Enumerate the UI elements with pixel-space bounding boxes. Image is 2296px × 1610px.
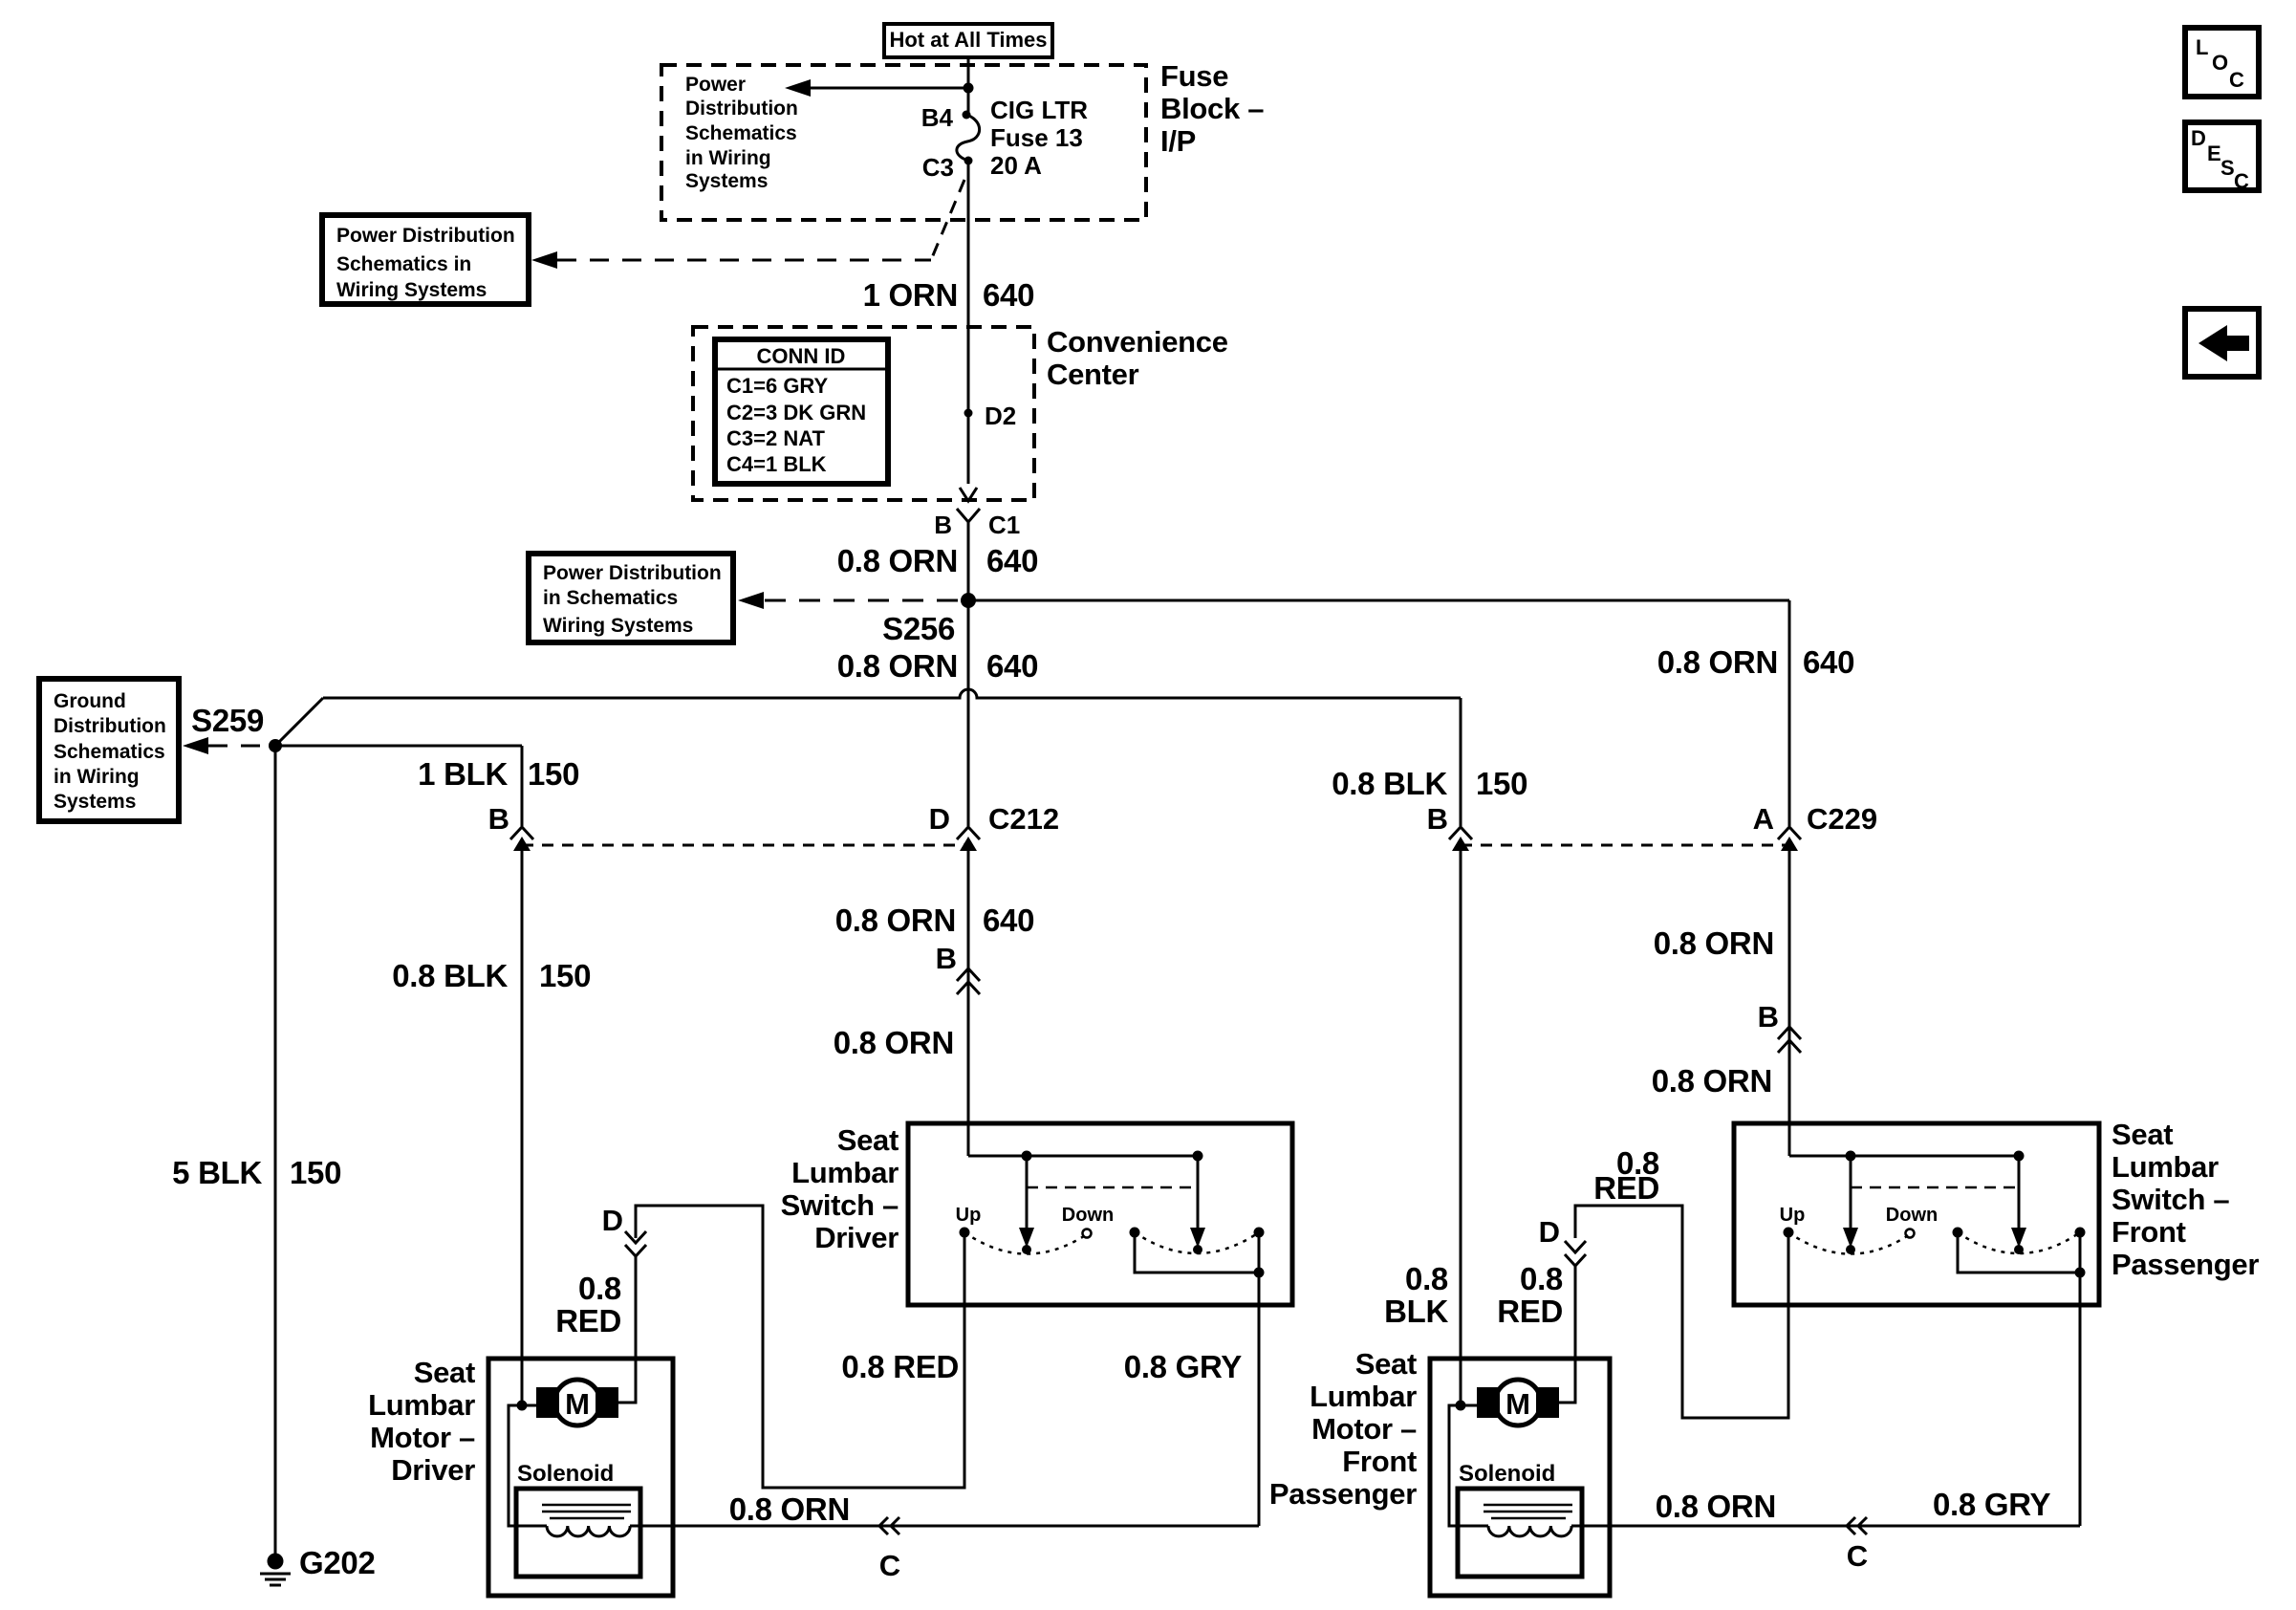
svg-text:C3: C3: [922, 153, 954, 182]
svg-text:A: A: [1753, 802, 1774, 836]
svg-text:150: 150: [290, 1155, 341, 1190]
svg-text:0.8 ORN: 0.8 ORN: [1652, 1063, 1772, 1099]
svg-text:20 A: 20 A: [990, 151, 1042, 180]
svg-text:Driver: Driver: [391, 1453, 475, 1487]
terminal dot: Up output: [960, 1228, 970, 1238]
switch wiper arrow (down contact): [1190, 1156, 1205, 1248]
junction: [1193, 1151, 1203, 1162]
svg-text:Power: Power: [685, 74, 746, 96]
fixed contact dots (right group): [1130, 1228, 1140, 1238]
svg-text:B: B: [1758, 1000, 1779, 1033]
dashed harness line B to C229: [1461, 844, 1789, 847]
splice S256: [882, 593, 976, 646]
svg-text:640: 640: [983, 903, 1034, 938]
svg-text:Seat: Seat: [837, 1123, 899, 1157]
pin C3: [922, 153, 973, 182]
svg-text:Up: Up: [956, 1205, 982, 1226]
solenoid (passenger): coil: [1488, 1526, 1571, 1536]
splice S259: [191, 703, 282, 752]
svg-text:1 ORN: 1 ORN: [863, 277, 958, 313]
wire: jog down to solenoid (passenger): [1449, 1405, 1488, 1526]
fuse: CIG LTR Fuse 13 20 A: [957, 96, 1088, 180]
connector C (driver, inline): [879, 1517, 900, 1582]
pin B / C1 labels: [934, 511, 1020, 539]
connector C1: male arrow: [960, 488, 977, 501]
svg-text:Power Distribution: Power Distribution: [336, 225, 515, 247]
svg-text:Seat: Seat: [414, 1356, 475, 1389]
svg-text:Motor –: Motor –: [1311, 1412, 1417, 1446]
note: Power Distribution Schematics in Wiring Systems (inside fuse block): [685, 74, 798, 192]
svg-text:0.8 ORN: 0.8 ORN: [834, 1025, 954, 1060]
wire label: 0.8 ORN / 640 below S256: [837, 648, 1038, 684]
svg-text:0.8 ORN: 0.8 ORN: [1654, 925, 1774, 961]
svg-text:0.8 ORN: 0.8 ORN: [835, 903, 956, 938]
wire label: 0.8 BLK / 150 (driver motor feed): [392, 958, 591, 993]
svg-text:Systems: Systems: [685, 170, 768, 192]
inline connector B (passenger feed): [1758, 1000, 1801, 1053]
svg-text:640: 640: [986, 648, 1038, 684]
wire: 0.8 GRY from driver switch down: [1258, 1273, 1261, 1526]
terminal dot: Up output (passenger): [1784, 1228, 1794, 1238]
wire: 0.8 RED from driver switch Up terminal: [636, 1206, 964, 1488]
svg-text:Fuse: Fuse: [1160, 59, 1228, 93]
svg-text:Distribution: Distribution: [685, 98, 798, 120]
connector D (driver motor): [602, 1204, 646, 1256]
svg-text:C: C: [2229, 68, 2244, 92]
wire: 0.8 BLK B connector down into driver motor: [521, 851, 524, 1405]
svg-text:Solenoid: Solenoid: [517, 1461, 614, 1487]
contact dot (wiper down): [1193, 1245, 1202, 1254]
wire: S259 to driver ground branch: [275, 745, 522, 748]
junction: [1254, 1268, 1265, 1278]
svg-text:CIG LTR: CIG LTR: [990, 96, 1088, 124]
dashed leader to power distribution box: [557, 259, 931, 262]
junction: [2075, 1268, 2086, 1278]
svg-text:D: D: [2191, 126, 2206, 150]
svg-text:C1: C1: [988, 511, 1020, 539]
wire: ground bus to passenger side (with hop over centre wire): [323, 689, 1461, 698]
wire: S256 down to C212: [967, 600, 970, 826]
svg-text:0.8 GRY: 0.8 GRY: [1124, 1349, 1243, 1384]
wire: D into passenger motor: [1558, 1266, 1575, 1403]
wire label: 1 BLK / 150 (driver ground): [418, 756, 579, 792]
junction on feed wire: [964, 83, 974, 94]
svg-text:in Wiring: in Wiring: [54, 766, 140, 788]
box: Ground Distribution Schematics in Wiring Systems: [39, 679, 179, 821]
switch wiper arrow (up contact, passenger): [1843, 1156, 1858, 1248]
dashed leader S256 to power distribution box: [765, 599, 958, 602]
svg-text:C4=1 BLK: C4=1 BLK: [726, 452, 827, 476]
svg-text:C229: C229: [1807, 802, 1877, 836]
component: Seat Lumbar Motor - Driver: [488, 1359, 673, 1596]
svg-text:M: M: [1505, 1387, 1530, 1421]
fuse block I/P dashed outline: [661, 65, 1146, 220]
svg-text:Wiring Systems: Wiring Systems: [543, 615, 693, 637]
svg-text:L: L: [2196, 35, 2208, 59]
svg-text:Schematics: Schematics: [54, 741, 165, 763]
wire: motor right brush to D wire: [617, 1402, 636, 1404]
svg-text:O: O: [2212, 51, 2228, 75]
svg-text:D: D: [929, 802, 950, 836]
svg-text:0.8 GRY: 0.8 GRY: [1933, 1487, 2051, 1522]
svg-text:Switch –: Switch –: [2112, 1183, 2229, 1216]
wire: fuse output down to convenience center: [967, 161, 970, 484]
svg-text:Seat: Seat: [2112, 1118, 2173, 1151]
svg-text:0.8 ORN: 0.8 ORN: [837, 543, 958, 578]
contact dot (wiper up, passenger): [1846, 1245, 1855, 1254]
svg-text:B: B: [488, 802, 509, 836]
dashed gang link between wipers: [1027, 1186, 1198, 1189]
svg-text:Distribution: Distribution: [54, 715, 166, 737]
label: Seat Lumbar Motor - Front Passenger: [1269, 1347, 1417, 1511]
svg-text:Wiring Systems: Wiring Systems: [336, 279, 487, 301]
wire: S256 branch to right (to C229): [968, 599, 1789, 602]
svg-text:Down: Down: [1886, 1205, 1938, 1226]
dotted throw arc (left, passenger): [1788, 1232, 1910, 1254]
wire: D into motor: [617, 1254, 636, 1403]
dotted throw arc (left): [964, 1232, 1087, 1254]
svg-text:in Schematics: in Schematics: [543, 587, 678, 609]
junction: [2014, 1151, 2025, 1162]
open pivot circle (Down): [1083, 1229, 1092, 1238]
svg-text:Switch –: Switch –: [781, 1188, 899, 1222]
wire label: 0.8 / RED (at D): [555, 1271, 621, 1338]
wire: 0.8 ORN C212 to driver switch: [967, 851, 970, 1156]
svg-text:0.8 ORN: 0.8 ORN: [1657, 644, 1778, 680]
wire: 0.8 GRY from passenger switch down: [2079, 1273, 2082, 1526]
DESC reference box: [2185, 122, 2259, 193]
svg-text:Lumbar: Lumbar: [2112, 1150, 2219, 1184]
dashed connector leader from C3: [931, 180, 964, 260]
svg-text:0.8 BLK: 0.8 BLK: [1332, 766, 1447, 801]
node D2: [964, 402, 1017, 430]
wire label: 0.8 / RED (at passenger D): [1497, 1261, 1563, 1329]
label: Fuse Block - I/P: [1160, 59, 1264, 158]
svg-text:C2=3 DK GRN: C2=3 DK GRN: [726, 401, 866, 424]
wire label: 0.8 / BLK (passenger motor feed): [1384, 1261, 1448, 1329]
svg-text:C3=2 NAT: C3=2 NAT: [726, 426, 825, 450]
svg-text:S259: S259: [191, 703, 264, 738]
motor M1: brushes: [536, 1387, 559, 1418]
svg-text:Power Distribution: Power Distribution: [543, 562, 722, 584]
svg-text:D2: D2: [985, 402, 1016, 430]
svg-text:Passenger: Passenger: [2112, 1248, 2259, 1281]
svg-text:Lumbar: Lumbar: [368, 1388, 475, 1422]
wire label: 0.8 / RED (upper passenger): [1593, 1145, 1659, 1206]
svg-text:Passenger: Passenger: [1269, 1477, 1417, 1511]
svg-text:Fuse 13: Fuse 13: [990, 123, 1083, 152]
svg-text:Front: Front: [1342, 1445, 1417, 1478]
svg-text:Systems: Systems: [54, 791, 136, 813]
wire: 0.8 ORN driver solenoid to passenger GRY: [630, 1525, 1259, 1528]
wire: right contacts tie: [1135, 1232, 1259, 1273]
motor M2: brushes: [1477, 1387, 1500, 1418]
CONN ID table: [715, 339, 888, 484]
svg-text:Solenoid: Solenoid: [1459, 1461, 1555, 1487]
wire: 0.8 RED from passenger switch Up terminal: [1575, 1206, 1788, 1418]
contact dot (wiper up): [1022, 1245, 1031, 1254]
connector D (passenger motor): [1539, 1215, 1586, 1266]
wire: to motor left brush: [522, 1404, 537, 1407]
wire label: 0.8 BLK / 150 (passenger ground): [1332, 766, 1527, 801]
svg-text:S: S: [2220, 156, 2235, 180]
dotted throw arc (right, passenger): [1958, 1232, 2080, 1253]
connector C1: female chevron: [957, 509, 980, 522]
connector C212 pin D: [929, 802, 1060, 851]
inline connector B (driver feed): [936, 942, 980, 994]
svg-text:BLK: BLK: [1384, 1294, 1448, 1329]
solenoid (driver): coil: [547, 1526, 630, 1536]
fixed contact dots (right group, passenger): [1953, 1228, 1963, 1238]
svg-text:Schematics: Schematics: [685, 122, 797, 144]
svg-text:0.8: 0.8: [1405, 1261, 1448, 1296]
svg-text:1 BLK: 1 BLK: [418, 756, 508, 792]
svg-text:G202: G202: [299, 1545, 376, 1580]
svg-text:Lumbar: Lumbar: [791, 1156, 899, 1189]
switch wiper arrow (down contact, passenger): [2011, 1156, 2026, 1248]
wire label: 5 BLK / 150: [172, 1155, 341, 1190]
svg-text:Schematics in: Schematics in: [336, 253, 471, 275]
solenoid (passenger): core bars: [1484, 1504, 1572, 1507]
svg-text:Up: Up: [1780, 1205, 1806, 1226]
label: Seat Lumbar Switch - Front Passenger: [2112, 1118, 2259, 1281]
svg-text:640: 640: [983, 277, 1034, 313]
component: Seat Lumbar Switch - Driver: [908, 1123, 1292, 1305]
svg-text:M: M: [565, 1387, 590, 1421]
svg-text:B: B: [1427, 802, 1448, 836]
contact dot (wiper down, passenger): [2014, 1245, 2024, 1254]
solenoid (driver): box: [516, 1489, 640, 1577]
svg-text:Lumbar: Lumbar: [1310, 1380, 1417, 1413]
svg-text:C: C: [2234, 169, 2249, 193]
svg-text:150: 150: [539, 958, 591, 993]
svg-text:640: 640: [1803, 644, 1854, 680]
arrowhead into ground distribution box: [183, 737, 208, 754]
ground G202: [260, 1545, 376, 1585]
wire: C229 drop: [1788, 600, 1791, 826]
junction: [1022, 1151, 1032, 1162]
svg-text:Motor –: Motor –: [370, 1421, 475, 1454]
svg-text:Down: Down: [1062, 1205, 1114, 1226]
component: Seat Lumbar Motor - Front Passenger: [1430, 1359, 1610, 1596]
svg-text:D: D: [1539, 1215, 1560, 1249]
wire: 0.8 ORN passenger solenoid to GRY drop: [1571, 1525, 2080, 1528]
motor M1: armature circle: [554, 1380, 600, 1425]
label: Seat Lumbar Switch - Driver: [781, 1123, 899, 1254]
wire: battery feed from Hot at All Times: [967, 57, 970, 115]
svg-text:C1=6 GRY: C1=6 GRY: [726, 374, 829, 398]
svg-text:640: 640: [986, 543, 1038, 578]
svg-text:0.8 ORN: 0.8 ORN: [837, 648, 958, 684]
svg-text:0.8 RED: 0.8 RED: [841, 1349, 959, 1384]
wire: driver ground drop: [521, 746, 524, 826]
wire: switch common bus (passenger): [1789, 1155, 2019, 1158]
label: Seat Lumbar Motor - Driver: [368, 1356, 475, 1487]
svg-text:150: 150: [1476, 766, 1527, 801]
solenoid (passenger): box: [1458, 1489, 1582, 1577]
svg-text:RED: RED: [1593, 1170, 1659, 1206]
wire: right contacts tie (passenger): [1958, 1232, 2080, 1273]
wire label: 1 ORN / 640: [863, 277, 1035, 313]
svg-text:C: C: [879, 1549, 900, 1582]
svg-text:Ground: Ground: [54, 690, 126, 712]
wire: S259 riser diagonal: [275, 698, 323, 746]
svg-text:B: B: [934, 511, 952, 539]
svg-text:S256: S256: [882, 611, 955, 646]
wire label: 0.8 ORN / 640 (below C212): [835, 903, 1034, 938]
node: Hot at All Times feed box: [884, 24, 1052, 57]
motor M2: armature circle: [1495, 1380, 1541, 1425]
switch wiper arrow (up contact): [1019, 1156, 1034, 1248]
junction at motor input: [517, 1401, 528, 1411]
svg-text:Front: Front: [2112, 1215, 2186, 1249]
connector C229 pin A: [1753, 802, 1878, 851]
LOC reference box: [2185, 28, 2259, 97]
svg-text:RED: RED: [1497, 1294, 1563, 1329]
svg-text:RED: RED: [555, 1303, 621, 1338]
junction: [1846, 1151, 1856, 1162]
connector C (passenger, inline): [1847, 1517, 1868, 1573]
connector pin B (passenger ground): [1427, 802, 1472, 851]
pin B4: [921, 103, 971, 132]
arrowhead into box: [738, 592, 764, 609]
dashed harness line B to C212: [522, 844, 968, 847]
svg-text:in Wiring: in Wiring: [685, 147, 771, 169]
wire: power distribution takeoff arrow: [785, 79, 968, 97]
dashed gang link between wipers (passenger): [1851, 1186, 2019, 1189]
wire: passenger ground drop: [1460, 698, 1462, 826]
box: Power Distribution Schematics in Wiring Systems (upper left): [322, 215, 529, 304]
svg-text:B4: B4: [921, 103, 954, 132]
svg-text:I/P: I/P: [1160, 124, 1196, 158]
label: Convenience Center: [1047, 325, 1228, 391]
svg-text:0.8 ORN: 0.8 ORN: [1656, 1489, 1776, 1524]
wire: 0.8 ORN C229 to passenger switch: [1788, 851, 1791, 1156]
svg-text:Center: Center: [1047, 358, 1139, 391]
svg-text:E: E: [2207, 141, 2221, 165]
svg-text:0.8: 0.8: [578, 1271, 621, 1306]
svg-text:Driver: Driver: [814, 1221, 899, 1254]
component: Seat Lumbar Switch - Front Passenger: [1734, 1123, 2099, 1305]
box: Power Distribution in Schematics Wiring Systems (middle): [529, 554, 733, 642]
wire: 0.8 ORN 640 from C1 to S256: [967, 522, 970, 600]
wire label: 0.8 ORN / 640 above S256: [837, 543, 1038, 578]
svg-text:C212: C212: [988, 802, 1059, 836]
dashed leader to S259: [208, 745, 268, 748]
solenoid (driver): core bars: [542, 1504, 631, 1507]
svg-text:0.8 ORN: 0.8 ORN: [729, 1491, 850, 1527]
svg-text:Convenience: Convenience: [1047, 325, 1228, 359]
svg-text:Hot at All Times: Hot at All Times: [889, 28, 1047, 52]
svg-text:Block –: Block –: [1160, 92, 1264, 125]
wire: 0.8 BLK B connector down into passenger motor: [1460, 851, 1462, 1405]
svg-text:0.8 BLK: 0.8 BLK: [392, 958, 508, 993]
svg-text:Seat: Seat: [1355, 1347, 1417, 1381]
svg-text:CONN ID: CONN ID: [757, 344, 846, 368]
svg-text:5 BLK: 5 BLK: [172, 1155, 262, 1190]
wire label: 0.8 ORN / 640 (right branch): [1657, 644, 1854, 680]
svg-text:150: 150: [528, 756, 579, 792]
wire: motor right brush to D wire (passenger): [1558, 1402, 1575, 1404]
Convenience Center dashed outline: [693, 327, 1034, 500]
connector pin B (driver ground): [488, 802, 533, 851]
wire: jog down to solenoid: [509, 1405, 547, 1526]
svg-text:C: C: [1847, 1539, 1868, 1573]
junction at passenger motor input: [1456, 1401, 1466, 1411]
wire: to motor left brush (passenger): [1461, 1404, 1478, 1407]
wire: S259 down to G202: [274, 746, 277, 1554]
svg-text:D: D: [602, 1204, 623, 1237]
open pivot circle (Down, passenger): [1906, 1229, 1915, 1238]
svg-text:B: B: [936, 942, 957, 975]
wire: switch common bus: [968, 1155, 1198, 1158]
svg-text:0.8: 0.8: [1520, 1261, 1563, 1296]
arrowhead into power distribution box: [531, 251, 557, 269]
back-arrow reference box: [2185, 309, 2259, 377]
dotted throw arc (right): [1135, 1232, 1259, 1253]
